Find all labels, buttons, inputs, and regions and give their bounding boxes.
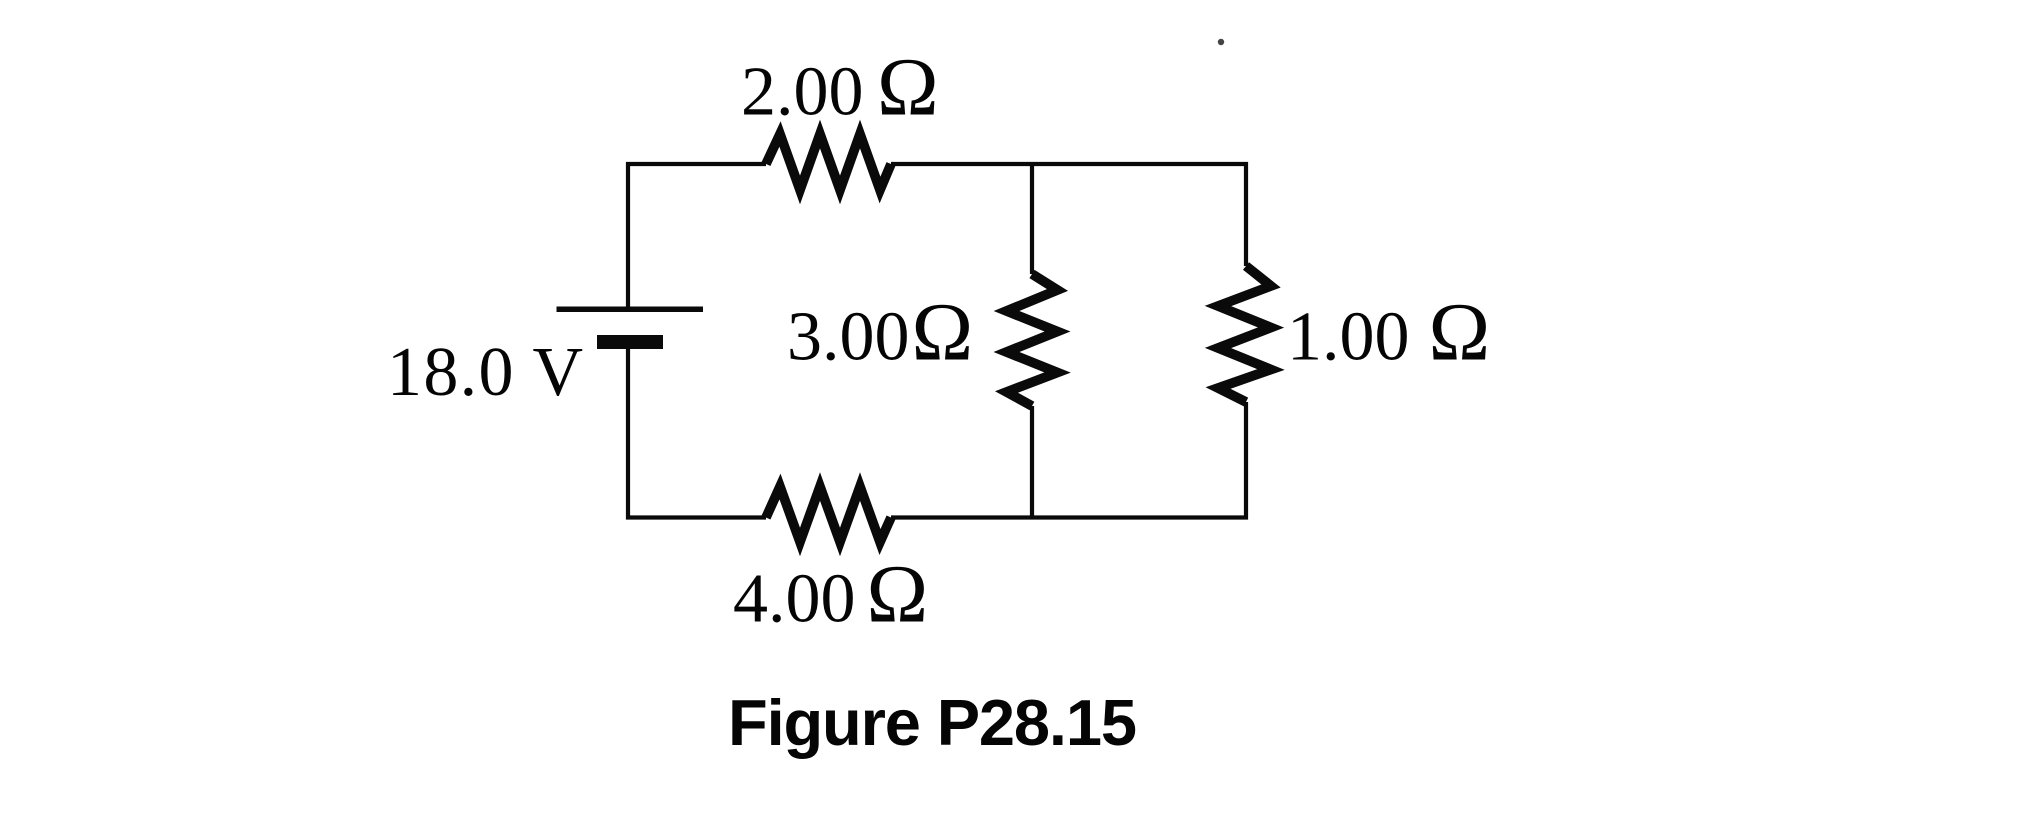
svg-text:18.0 V: 18.0 V [387, 334, 583, 411]
svg-text:2.00Ω: 2.00Ω [741, 41, 939, 133]
wire: middle branch top segment (node at top wire down to 3.00ohm resistor) [1030, 164, 1034, 274]
svg-text:3.00Ω: 3.00Ω [787, 286, 973, 378]
wire: battery - plate down to bottom-left corner and right to 4.00ohm resistor [628, 345, 766, 518]
wire: middle branch bottom segment (3.00ohm resistor down to bottom wire) [1030, 406, 1034, 518]
svg-text:1.00Ω: 1.00Ω [1287, 286, 1490, 378]
battery 18.0 V: short thick (-) plate [597, 335, 663, 349]
resistor 1.00 ohm (right, vertical zigzag) [1218, 266, 1271, 402]
resistor 2.00 ohm (top, horizontal zigzag) [766, 134, 891, 190]
wire: bottom from 4.00ohm resistor right to bottom-right corner up to 1.00ohm resistor [891, 402, 1246, 518]
scan speck dot [1218, 39, 1224, 45]
wire: top-left from 2.00ohm resistor to top-left corner down to battery + plate [628, 164, 766, 311]
resistor 3.00 ohm (middle, vertical zigzag) [1007, 274, 1058, 406]
resistor 4.00 ohm (bottom, horizontal zigzag) [766, 487, 891, 543]
svg-text:4.00Ω: 4.00Ω [733, 548, 928, 640]
wire: top from 2.00ohm resistor right to top-right corner down to 1.00ohm resistor [891, 164, 1246, 266]
battery 18.0 V: long (+) plate [557, 307, 704, 313]
svg-text:Figure P28.15: Figure P28.15 [728, 686, 1137, 759]
